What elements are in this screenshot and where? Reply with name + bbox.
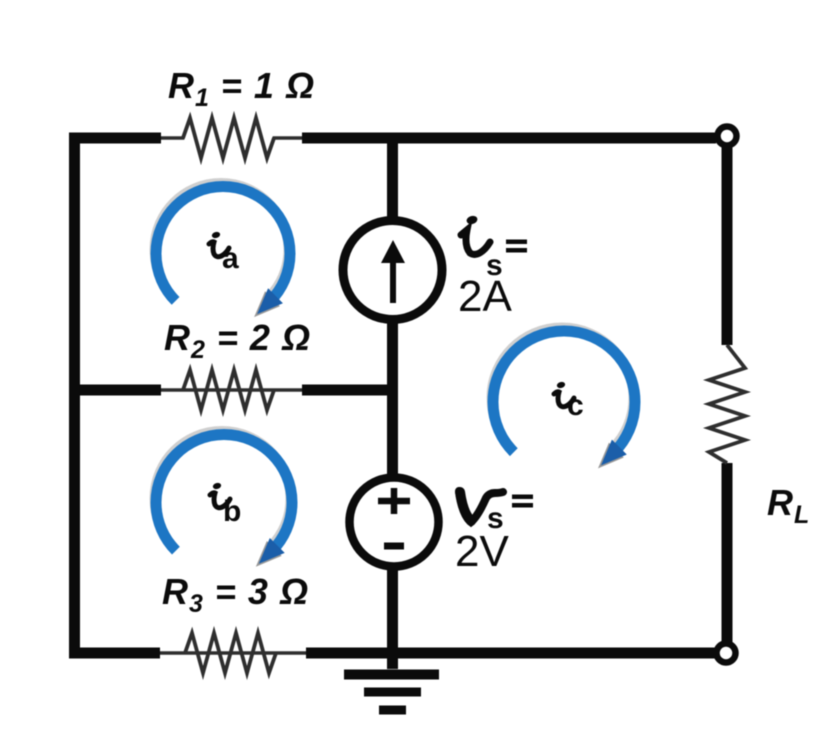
- svg-text:R3 = 3 Ω: R3 = 3 Ω: [162, 571, 309, 618]
- label vs : script v glyph: [459, 491, 503, 522]
- label ia: [209, 231, 229, 257]
- svg-text:2A: 2A: [458, 272, 512, 321]
- wire top-left segment: [69, 133, 161, 144]
- resistor R1: [161, 118, 302, 158]
- label ic: [554, 381, 574, 407]
- wire bottom-left segment: [69, 648, 160, 659]
- svg-text:R2 = 2 Ω: R2 = 2 Ω: [164, 317, 311, 364]
- svg-text:2V: 2V: [455, 527, 509, 576]
- wire middle-right segment: [302, 385, 397, 396]
- wire center vertical lower (voltage source to ground): [387, 566, 398, 669]
- svg-text:a: a: [222, 242, 239, 275]
- node terminal top-right: [718, 127, 737, 146]
- wire middle-left segment: [69, 385, 161, 396]
- svg-text:b: b: [223, 495, 241, 528]
- node terminal bottom-right: [717, 644, 736, 663]
- mesh current loop ic: [491, 327, 635, 468]
- svg-text:RL: RL: [767, 482, 810, 529]
- voltage source plus sign: [378, 488, 410, 514]
- mesh current loop ia: [154, 183, 290, 318]
- voltage source minus sign: [384, 543, 404, 550]
- svg-text:c: c: [567, 389, 584, 422]
- wire right vertical upper (terminal to RL): [722, 145, 733, 345]
- wire right vertical lower (RL to terminal): [722, 463, 733, 645]
- current source arrow: [390, 258, 396, 303]
- voltage source VS circle: [350, 478, 439, 567]
- resistor RL: [709, 345, 745, 463]
- svg-text:R1 = 1 Ω: R1 = 1 Ω: [168, 65, 315, 112]
- wire center vertical middle (current source to voltage source): [387, 318, 398, 478]
- wire center vertical upper (top node to current source): [387, 133, 398, 222]
- label vs : equals sign: [512, 495, 533, 508]
- label is : equals sign: [506, 240, 527, 253]
- resistor R3: [160, 651, 306, 655]
- ground: [344, 675, 439, 711]
- wire bottom-right segment: [306, 648, 715, 659]
- mesh current loop ib: [154, 431, 292, 567]
- wire top-right segment: [302, 133, 716, 144]
- current source IS circle: [343, 221, 442, 320]
- resistor R2: [161, 388, 302, 392]
- wire left vertical: [69, 133, 80, 658]
- label ib: [210, 482, 230, 508]
- label is : script i glyph: [461, 215, 490, 255]
